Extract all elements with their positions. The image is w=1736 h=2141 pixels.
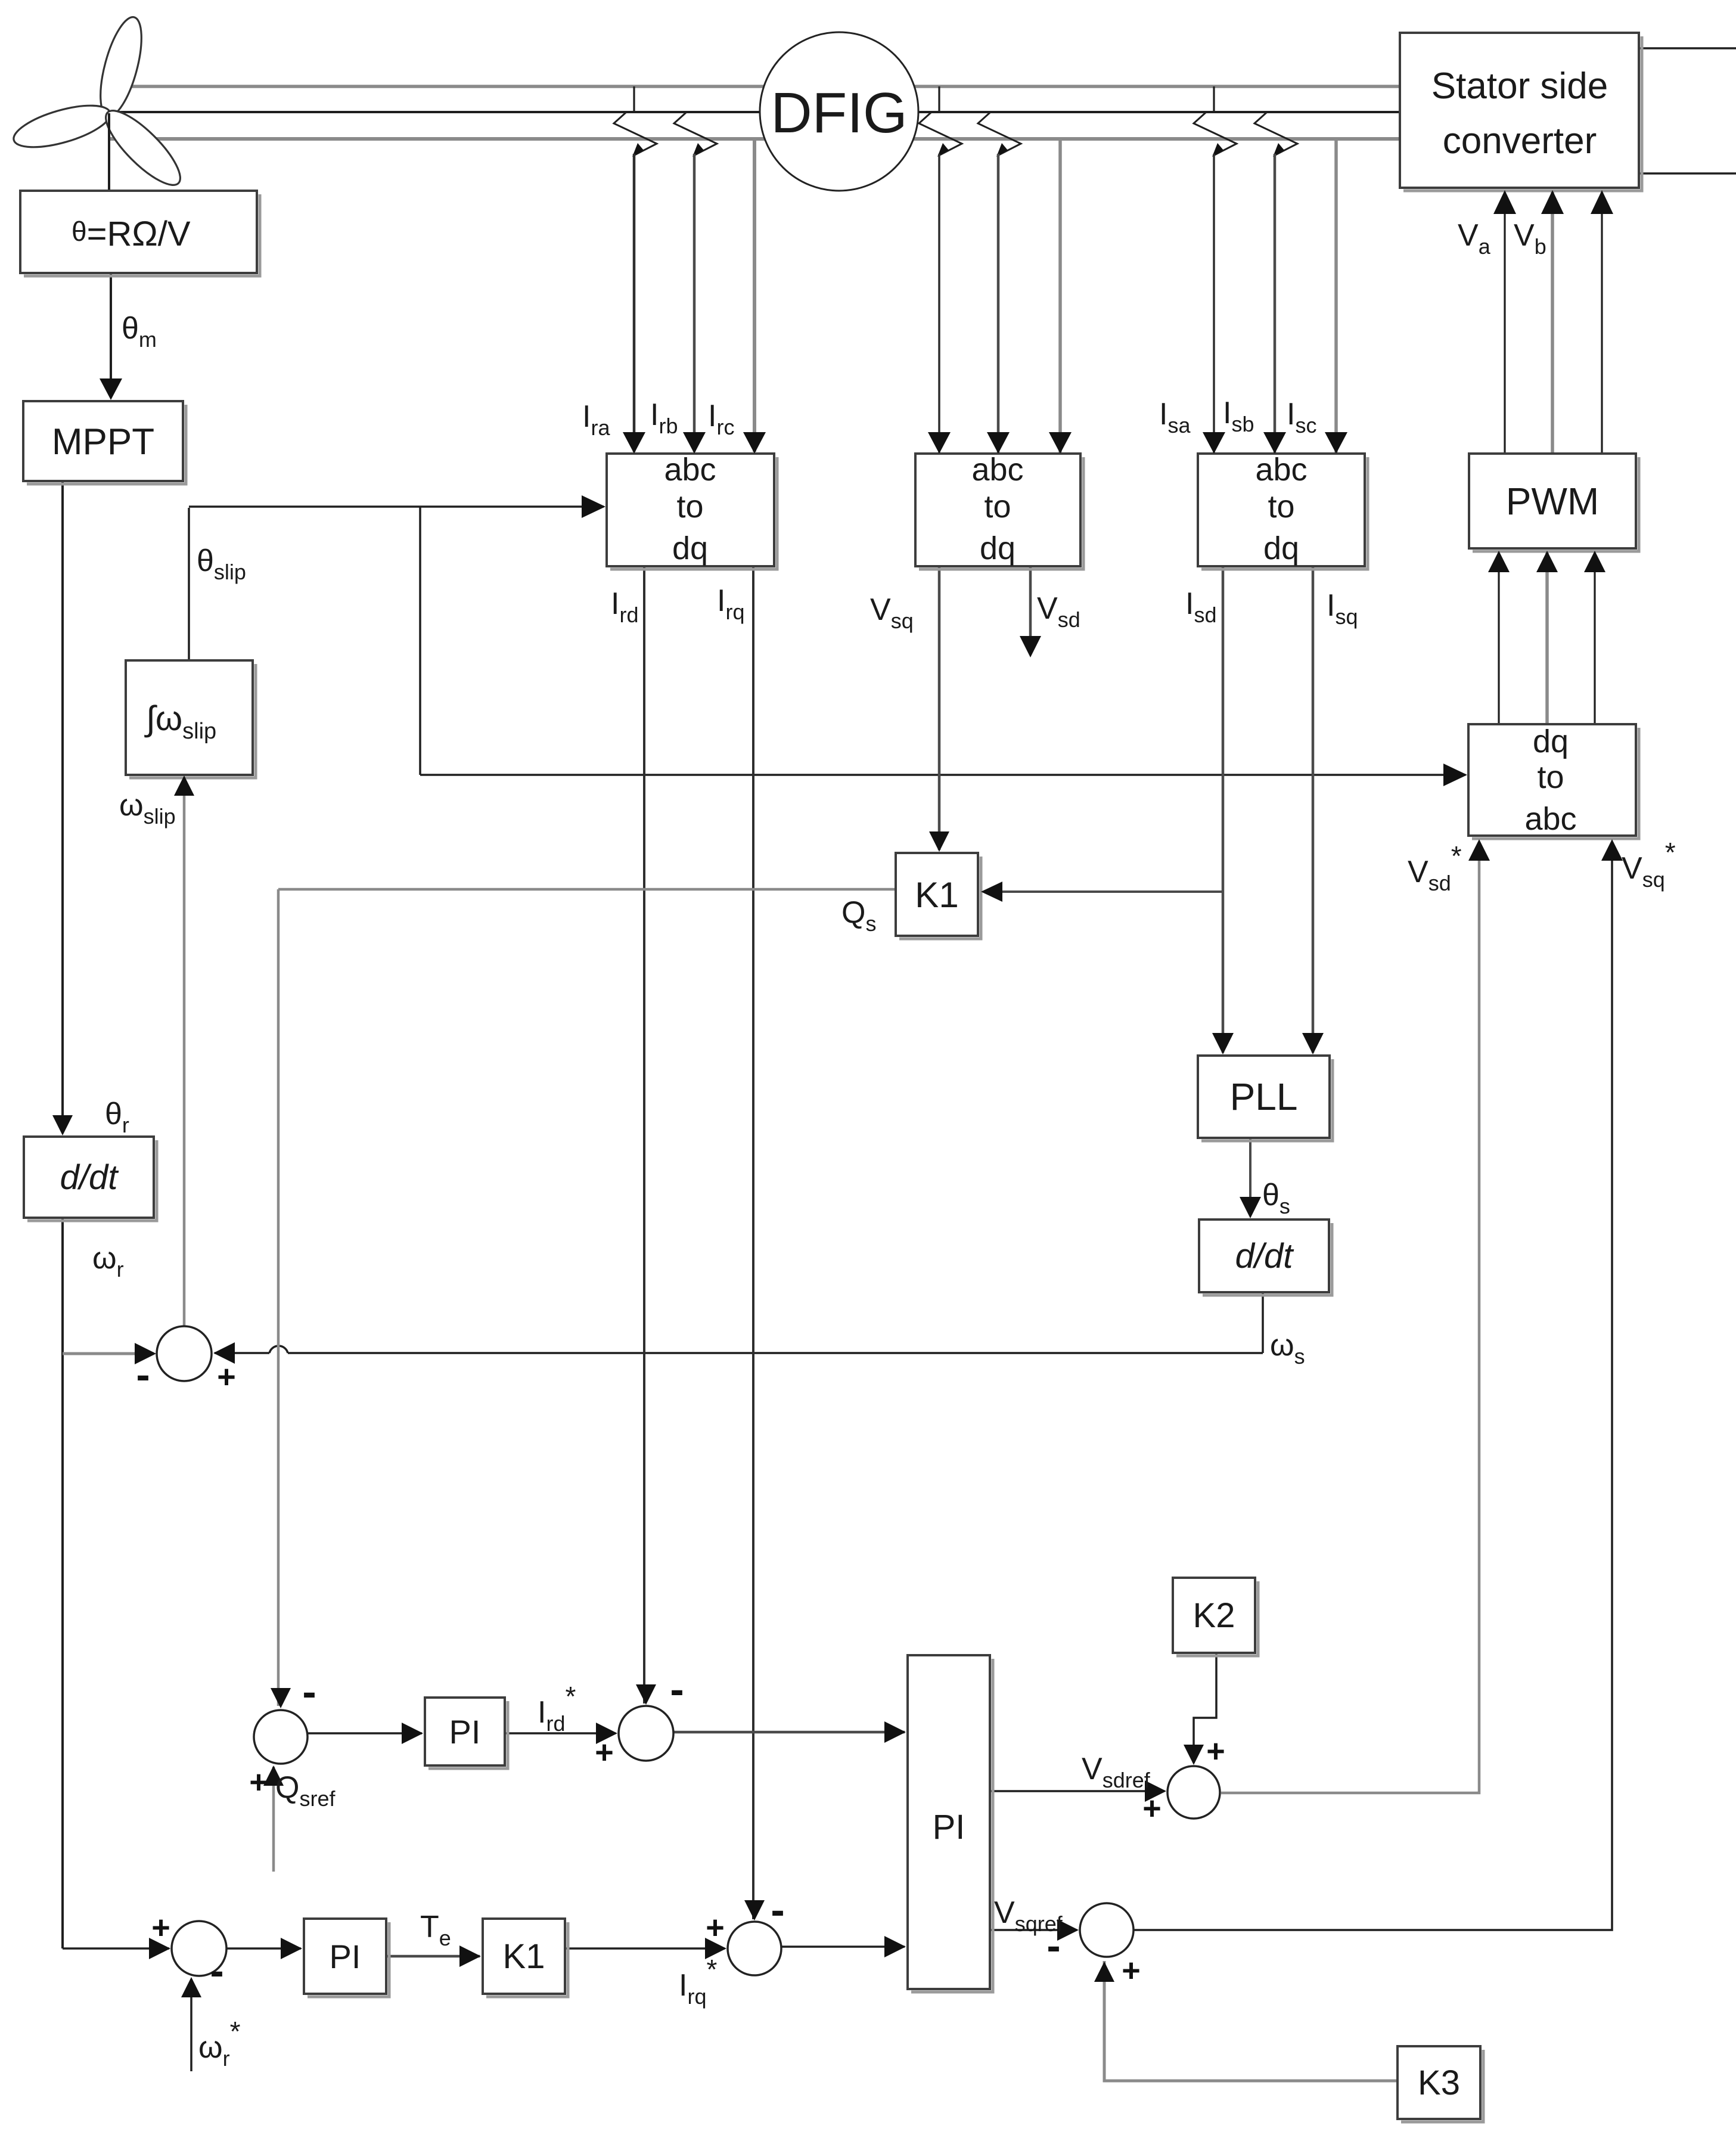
svg-text:PI: PI [933, 1808, 965, 1847]
svg-text:dq: dq [1263, 530, 1299, 566]
block dq to abc [1468, 724, 1639, 839]
svg-text:-: - [136, 1351, 150, 1398]
wind turbine rotor [10, 13, 190, 195]
arrow Irq* into summing [705, 1938, 726, 1959]
svg-text:DFIG: DFIG [771, 81, 907, 145]
summing junction Irq [728, 1922, 781, 1975]
wire hop over Qs feedback [269, 1346, 288, 1353]
wire Isa vertical [1213, 154, 1215, 453]
svg-text:+: + [217, 1359, 236, 1395]
wire speed block to MPPT (theta_m) [110, 273, 112, 397]
block K2 [1173, 1578, 1258, 1656]
summing junction omega_slip [157, 1326, 212, 1381]
arrow Ird error into big PI [884, 1721, 906, 1743]
wire Ira vertical [633, 154, 636, 452]
svg-text:-: - [302, 1668, 316, 1715]
wire zigzag tap stator a [919, 113, 962, 156]
block PI current big [908, 1655, 993, 1992]
svg-text:K1: K1 [915, 875, 958, 915]
svg-text:+: + [151, 1910, 170, 1945]
summing junction Qs [254, 1710, 308, 1764]
svg-text:PI: PI [330, 1938, 361, 1975]
wire speed summing to PI [226, 1947, 301, 1950]
block d/dt stator [1199, 1220, 1332, 1295]
arrow theta_s into d/dt [1240, 1197, 1261, 1218]
svg-text:K2: K2 [1193, 1596, 1235, 1635]
wire zigzag tap Irb [674, 113, 717, 156]
arrow K3 into Vsqref summing [1094, 1962, 1114, 1982]
wire K3 to Vsqref summing [1104, 1961, 1398, 2081]
wire Vsqref to summing [990, 1929, 1077, 1931]
wire converter output upper [1639, 47, 1736, 49]
block PI reactive power [425, 1698, 508, 1768]
svg-text:abc: abc [1255, 452, 1307, 488]
block PWM [1469, 454, 1639, 551]
wire Vsdref to summing [990, 1790, 1164, 1792]
svg-text:PWM: PWM [1506, 480, 1599, 523]
wire MPPT to d/dt (theta_r) [61, 481, 64, 1132]
svg-text:-: - [210, 1947, 223, 1994]
wire Isq down to PLL [1312, 566, 1315, 1053]
arrows Va Vb Vc into converter [1493, 190, 1516, 214]
wire stator-a vertical [938, 154, 940, 453]
wire tap stub Va from top phase [938, 86, 940, 112]
wire d/dt output omega_r down [61, 1218, 64, 1948]
svg-text:abc: abc [1524, 801, 1576, 837]
svg-text:+: + [1142, 1791, 1162, 1826]
arrows stator currents into abc-to-dq [1203, 432, 1225, 454]
svg-text:-: - [771, 1886, 784, 1933]
svg-text:dq: dq [672, 530, 708, 566]
block d/dt rotor [24, 1137, 157, 1221]
wire omega_r into speed-ref summing [63, 1947, 169, 1950]
wire Isd branch to K1 [983, 890, 1223, 893]
wire PI output Ird* to summing [505, 1732, 616, 1734]
arrow Vsdref into summing [1145, 1780, 1166, 1802]
arrow Irq error into big PI [884, 1936, 906, 1957]
wire Vsq down to K1 [938, 566, 941, 850]
svg-text:abc: abc [664, 452, 716, 488]
wire omega_slip from summing up to integrator [183, 777, 186, 1327]
svg-text:dq: dq [1533, 724, 1569, 759]
arrow Ird measured into summing [636, 1684, 656, 1705]
svg-text:+: + [1122, 1953, 1141, 1988]
arrow Isd into K1 [981, 882, 1002, 902]
summing junction speed [172, 1921, 226, 1976]
summing junction Ird [619, 1706, 673, 1761]
svg-text:to: to [1537, 759, 1564, 795]
arrow omega_r* into speed summing [181, 1977, 201, 1997]
summing junction Vsdref [1167, 1766, 1220, 1819]
machine DFIG [760, 32, 918, 191]
svg-text:abc: abc [971, 452, 1023, 488]
wire Qs summing to PI [308, 1732, 422, 1734]
svg-text:dq: dq [980, 530, 1015, 566]
wire turbine shaft to speed block [108, 113, 110, 191]
wire Irb vertical [693, 154, 696, 452]
wire Isc vertical from bottom phase [1334, 141, 1338, 453]
arrow error into PI speed [281, 1938, 302, 1959]
arrows Vsd* Vsq* into dq-to-abc [1468, 839, 1490, 861]
block integrator of omega_slip [126, 660, 256, 778]
arrow theta_slip into abc-to-dq [582, 495, 605, 518]
arrows into PWM [1488, 551, 1510, 572]
wire Irq error to big PI [782, 1945, 905, 1948]
wire theta_slip branch down at node [419, 507, 421, 775]
wire zigzag tap Isb [1254, 113, 1297, 156]
arrow theta_r into d/dt [52, 1115, 73, 1135]
block stator side converter [1400, 33, 1642, 191]
wire stator-c vertical from bottom phase [1058, 141, 1062, 453]
svg-text:MPPT: MPPT [52, 421, 154, 463]
wire omega_r* input [190, 1979, 192, 2071]
wire Ird from abc-to-dq down to summing [643, 566, 645, 1704]
wire dq-to-abc to PWM phase c [1594, 552, 1595, 724]
wire zigzag tap Isa [1194, 113, 1237, 156]
wire PWM to converter Vc [1601, 191, 1603, 454]
svg-text:PLL: PLL [1230, 1075, 1298, 1118]
arrow K2 into Vsdref summing [1184, 1745, 1204, 1765]
svg-text:K3: K3 [1418, 2064, 1460, 2102]
wire K1 output Qs to reactive summing [278, 888, 896, 891]
block K1 torque [483, 1919, 568, 1997]
wire PWM to converter Va [1504, 191, 1505, 454]
wire tap stub Ira from top phase [633, 86, 635, 112]
arrow Te into K1 [459, 1945, 481, 1967]
wire tap stub Isa from top phase [1213, 86, 1215, 112]
arrow Ird* into summing [596, 1723, 617, 1744]
wire zigzag tap Ira [614, 113, 657, 156]
block MPPT [23, 401, 186, 484]
svg-text:Stator side: Stator side [1431, 66, 1608, 107]
wire zigzag tap stator b [978, 113, 1021, 156]
svg-text:converter: converter [1443, 120, 1597, 162]
wire stator-b vertical [997, 154, 1000, 453]
wire PLL to d/dt (theta_s) [1249, 1138, 1251, 1215]
block K1 reactive [896, 853, 981, 939]
svg-text:θ=RΩ/V: θ=RΩ/V [72, 215, 191, 253]
wire Qsref input [272, 1767, 275, 1872]
block abc to dq stator voltages [915, 454, 1083, 569]
block abc to dq rotor currents [607, 454, 777, 569]
wire K2 to Vsdref summing [1194, 1653, 1216, 1763]
wire omega_r branch into speed summing [63, 1352, 154, 1355]
arrow omega_slip into integrator [174, 775, 194, 796]
wire dq-to-abc to PWM phase b [1545, 552, 1549, 724]
wire theta_slip horizontal to abc-to-dq [189, 505, 604, 508]
svg-text:to: to [676, 489, 703, 525]
block speed calculation theta=R*Omega/V [20, 191, 260, 276]
wire Vsd short arrow down [1029, 566, 1032, 637]
wire PWM to converter Vb [1551, 191, 1554, 454]
block abc to dq stator currents [1198, 454, 1368, 569]
arrow omega_r into slip summing via branch [213, 1342, 235, 1364]
arrow theta_m into MPPT [100, 378, 122, 400]
arrows stator voltages into abc-to-dq [928, 432, 951, 454]
svg-text:to: to [1268, 489, 1294, 525]
summing junction Vsqref [1080, 1903, 1133, 1957]
block K3 [1398, 2046, 1483, 2122]
svg-text:+: + [595, 1734, 614, 1770]
wire Irq from abc-to-dq down to summing [752, 566, 754, 1919]
arrow error into PI reactive [402, 1723, 423, 1744]
svg-text:K1: K1 [503, 1937, 545, 1976]
svg-text:PI: PI [449, 1713, 481, 1751]
svg-text:-: - [1046, 1922, 1060, 1969]
svg-text:d/dt: d/dt [1235, 1237, 1295, 1276]
svg-text:d/dt: d/dt [60, 1158, 120, 1197]
wire K1 to Irq summing [565, 1947, 725, 1950]
svg-text:to: to [984, 489, 1011, 525]
wire three-phase bus top (turbine to DFIG to converter) [109, 86, 1400, 139]
svg-text:+: + [1206, 1733, 1225, 1769]
svg-text:+: + [249, 1764, 268, 1800]
wire PI to K1 (Te) [386, 1955, 480, 1958]
arrow Irq measured into summing [744, 1900, 765, 1920]
block PLL [1198, 1056, 1333, 1141]
block PI speed [304, 1919, 389, 1997]
wire converter output lower [1639, 172, 1736, 175]
arrows Isd Isq into PLL [1212, 1033, 1234, 1054]
wire theta_slip branch to dq-to-abc [420, 774, 1465, 776]
arrow Qs feedback into summing [271, 1688, 291, 1708]
arrow Qsref into summing [263, 1765, 284, 1786]
arrow Vsqref into summing [1057, 1919, 1079, 1941]
arrow Vsq into K1 [929, 831, 949, 852]
wire integrator output theta_slip up [188, 508, 190, 660]
wire omega_s horizontal to slip summing [288, 1352, 1263, 1354]
wire Irc vertical from bottom phase [753, 141, 756, 452]
wire Vsd* feedback right and up to dq-to-abc [1221, 842, 1479, 1793]
wire Isb vertical [1274, 154, 1277, 453]
wire Ird error to big PI [673, 1731, 905, 1734]
wire Vsq* feedback right and up to dq-to-abc [1133, 842, 1612, 1930]
svg-text:+: + [706, 1910, 725, 1945]
svg-text:-: - [670, 1666, 684, 1712]
arrow theta_slip into dq-to-abc [1443, 764, 1467, 786]
arrow omega_s into slip summing [135, 1343, 156, 1364]
arrow omega_r into speed summing [149, 1938, 170, 1959]
wire dq-to-abc to PWM phase a [1498, 552, 1499, 724]
wire d/dt omega_s down [1262, 1292, 1264, 1353]
wire Isd down to PLL [1222, 566, 1225, 1053]
arrows rotor currents into abc-to-dq [623, 432, 645, 454]
